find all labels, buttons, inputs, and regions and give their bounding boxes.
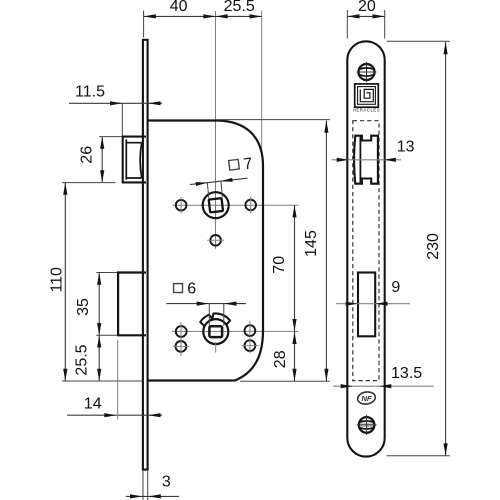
svg-text:NF: NF [361, 394, 371, 403]
dim 25.5 top [216, 15, 262, 17]
svg-text:20: 20 [358, 0, 376, 15]
top screw [359, 64, 375, 80]
svg-text:110: 110 [49, 267, 66, 293]
svg-text:25.5: 25.5 [224, 0, 255, 15]
Heracles logo [355, 84, 379, 107]
dim 70 [294, 205, 296, 331]
centerline vertical through spindle [215, 11, 217, 249]
dim 26 [101, 137, 103, 183]
dim 14 [67, 414, 162, 416]
svg-text:3: 3 [162, 474, 171, 491]
svg-text:9: 9 [391, 279, 400, 296]
svg-text:14: 14 [84, 395, 102, 412]
dim 25.5 left [98, 335, 100, 381]
svg-text:145: 145 [303, 230, 320, 257]
lock case outline [148, 121, 264, 381]
svg-text:230: 230 [425, 233, 442, 260]
dim 3 [126, 495, 179, 497]
dim 9 [336, 303, 410, 305]
dim 11.5 [69, 102, 162, 104]
svg-text:HERACLES: HERACLES [353, 108, 381, 113]
latch inner bevel [126, 139, 141, 179]
svg-text:26: 26 [78, 146, 95, 164]
dim 13.5 [333, 385, 434, 387]
dim 145 [325, 121, 327, 382]
centerline horizontal spindle row [172, 204, 298, 206]
deadbolt opening front view [358, 273, 375, 337]
centerline horizontal follower row [172, 330, 298, 332]
NF logo [357, 391, 376, 406]
svg-text:40: 40 [170, 0, 188, 15]
WC follower square 6mm [209, 326, 222, 337]
latch opening front view [354, 136, 378, 184]
holes right of follower [245, 325, 256, 336]
label square 6 [174, 284, 183, 293]
WC follower cam [200, 313, 230, 326]
svg-text:13.5: 13.5 [391, 365, 422, 382]
dashed case outline behind plate [353, 121, 379, 381]
dim 28 [294, 331, 296, 381]
hole left of spindle [176, 200, 187, 211]
label square 7 [228, 155, 253, 175]
dim 6 [166, 303, 246, 305]
latch bottom extension line (26/110 dims) [62, 182, 116, 184]
case bottom extension line left (110/25.5 dims) [62, 380, 143, 382]
dim 230 [445, 42, 447, 456]
hole below spindle [210, 235, 221, 246]
svg-text:11.5: 11.5 [75, 84, 105, 101]
faceplate edge view [143, 40, 148, 470]
WC follower circle [203, 319, 228, 344]
spindle square 7mm [209, 198, 223, 212]
svg-text:35: 35 [75, 298, 92, 316]
holes left of follower [176, 326, 187, 337]
dim 110 [64, 183, 66, 381]
dim 13 [332, 159, 402, 161]
svg-text:28: 28 [272, 350, 289, 368]
faceplate front outline [347, 41, 384, 456]
svg-text:70: 70 [271, 256, 288, 274]
dim 40 [144, 15, 216, 17]
case top extension line (145 dim) [216, 119, 330, 121]
latch bevel curve [140, 143, 142, 178]
extension line case right edge (25.5 dim) [261, 11, 263, 153]
bottom screw [360, 422, 374, 427]
deadbolt side view [118, 273, 146, 336]
latch bolt side view [123, 137, 146, 183]
svg-text:25.5: 25.5 [74, 344, 91, 375]
dim 35 [98, 273, 100, 336]
dim 7 slanted leader [190, 178, 248, 184]
case bottom extension line right (145/28 dims) [240, 380, 330, 382]
spindle follower circle [203, 192, 229, 218]
svg-text:6: 6 [187, 281, 196, 298]
dim 20 [347, 15, 384, 17]
hole right of spindle [245, 200, 256, 211]
svg-text:13: 13 [397, 138, 415, 155]
